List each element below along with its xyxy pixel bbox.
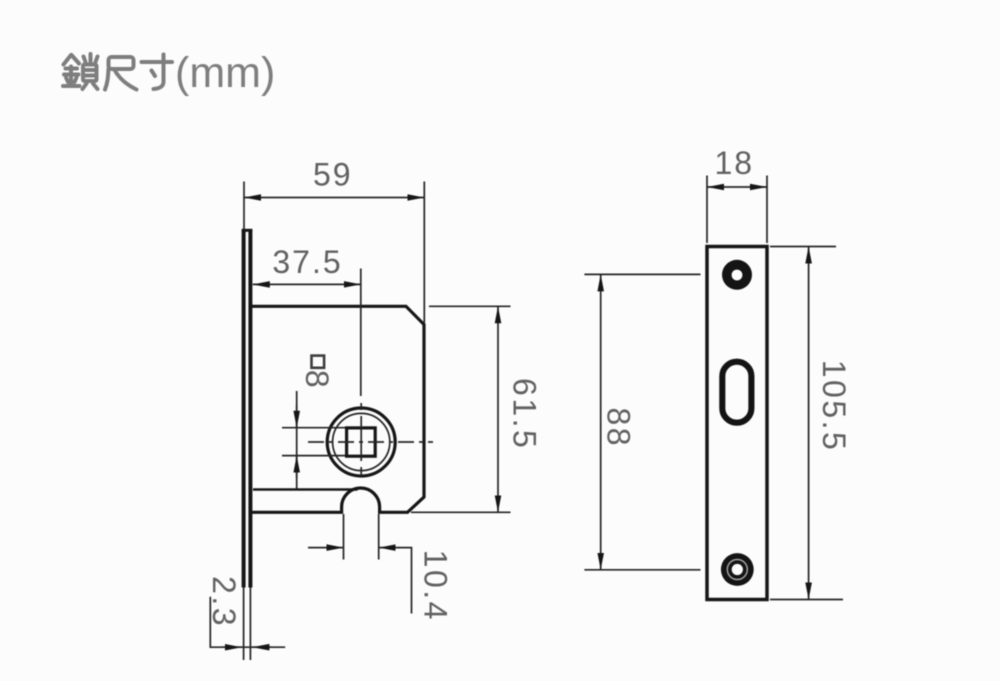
svg-text:61.5: 61.5 xyxy=(507,378,543,450)
lock body internal bottom line xyxy=(253,488,358,490)
dim 37.5 extension line xyxy=(360,269,362,397)
title stroke group 尺 xyxy=(105,57,137,90)
title stroke group 鎖 xyxy=(63,54,98,89)
svg-text:10.4: 10.4 xyxy=(418,550,454,622)
faceplate side view xyxy=(242,230,253,660)
svg-text:37.5: 37.5 xyxy=(272,244,342,280)
dim 105.5 line xyxy=(808,247,810,600)
dim 10.4 extension lines xyxy=(344,514,379,560)
dim 61.5 extension lines xyxy=(411,306,511,512)
spindle square hole xyxy=(347,428,376,456)
dim 88 line xyxy=(600,274,602,569)
dim 88 extension lines xyxy=(584,274,700,569)
svg-text:(mm): (mm) xyxy=(175,49,275,97)
dim 10.4 arrows and leader xyxy=(308,547,344,549)
svg-text:59: 59 xyxy=(313,157,353,193)
svg-text:105.5: 105.5 xyxy=(816,360,852,453)
centerline horizontal xyxy=(308,441,433,443)
bottom screw hole xyxy=(721,553,754,586)
svg-text:2.3: 2.3 xyxy=(206,576,242,628)
top screw hole xyxy=(722,260,752,290)
centerline vertical xyxy=(360,403,362,489)
title stroke group 寸 xyxy=(142,55,173,90)
dim 2.3 arrows xyxy=(222,646,242,648)
dim 8 square symbol xyxy=(312,356,325,368)
oval slot xyxy=(722,362,751,423)
dim 105.5 extension lines xyxy=(770,247,843,600)
svg-text:8: 8 xyxy=(299,370,335,390)
striker plate front view xyxy=(707,247,767,600)
lock body outline xyxy=(252,306,424,512)
spindle hub outer circle xyxy=(327,408,395,476)
dim 8 line with outside arrows xyxy=(296,391,298,489)
dim 59 extension lines xyxy=(244,182,424,324)
dim 37.5 line xyxy=(253,283,361,285)
spindle hub inner circle xyxy=(333,413,390,470)
svg-text:18: 18 xyxy=(715,145,755,181)
dim 8 extension lines xyxy=(282,428,345,456)
svg-text:88: 88 xyxy=(601,408,637,449)
dim 59 line xyxy=(244,197,424,199)
dim 61.5 line xyxy=(497,306,499,512)
dim 2.3 leader xyxy=(210,597,285,647)
dim 18 extension lines xyxy=(707,176,767,244)
dim 18 line xyxy=(707,186,767,188)
